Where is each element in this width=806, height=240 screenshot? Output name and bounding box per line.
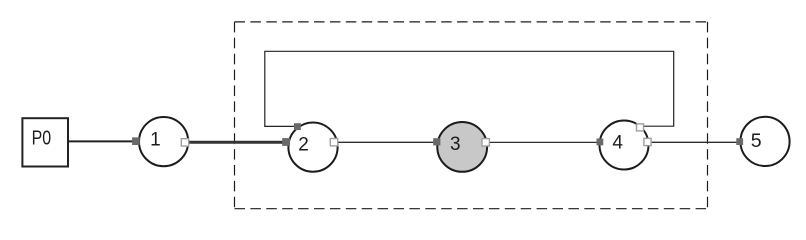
connector hollow square on node 4 right <box>644 138 651 145</box>
node 5 <box>740 117 789 166</box>
svg-text:2: 2 <box>298 135 309 156</box>
node 4 <box>600 121 649 170</box>
wire node 2 to node 3 <box>334 141 437 143</box>
wire node 3 to node 4 <box>486 141 600 143</box>
wire node 4 to node 5 <box>648 141 740 143</box>
connector filled square on node 5 left <box>736 138 743 145</box>
source box P0 <box>22 118 68 166</box>
connector hollow square on node 1 right <box>181 139 188 146</box>
connector filled square on node 2 left <box>282 138 290 146</box>
node 2 <box>288 123 337 172</box>
connector hollow square on node 3 right <box>482 139 489 146</box>
svg-text:4: 4 <box>612 133 623 154</box>
wire feedback path from node 4 top to node 2 top <box>265 51 674 126</box>
connector filled square on node 4 left <box>597 139 604 146</box>
svg-text:P0: P0 <box>32 128 51 150</box>
connector filled square on node 1 left <box>132 137 140 145</box>
dashed subsystem boundary box <box>235 22 708 209</box>
svg-text:5: 5 <box>751 130 762 152</box>
connector filled square on node 2 top (feedback target) <box>294 123 301 130</box>
wire node 1 to node 2 (thick) <box>185 141 286 144</box>
node 3 (marked / gray fill) <box>437 122 487 172</box>
svg-text:3: 3 <box>450 134 461 155</box>
connector filled square on node 3 left <box>433 138 440 145</box>
svg-text:1: 1 <box>150 130 161 151</box>
connector hollow square on node 4 top-right (feedback source) <box>637 124 644 131</box>
wire P0 to node 1 <box>68 140 136 142</box>
connector hollow square on node 2 right <box>330 139 337 146</box>
node 1 <box>139 117 188 166</box>
